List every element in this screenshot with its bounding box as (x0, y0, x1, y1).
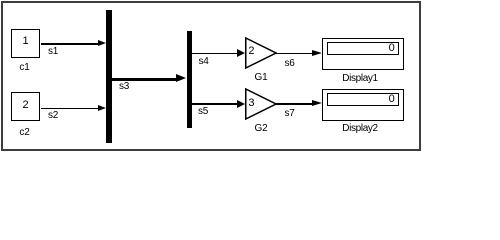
diagram border frame (1, 1, 421, 151)
wire s2 (41, 108, 98, 110)
wire s3 (vector, thick) (112, 78, 176, 81)
display Display2 (322, 89, 405, 121)
label s7 (285, 109, 295, 119)
label Display1 (318, 74, 402, 84)
gain G1 value 2 (248, 46, 254, 57)
demux bar (187, 31, 193, 128)
label s4 (199, 57, 209, 67)
gain G2 (245, 88, 277, 120)
display Display2 value 0 (389, 94, 395, 105)
label G2 (246, 124, 276, 134)
label s3 (119, 82, 129, 92)
wire s7 (276, 103, 312, 105)
arrowhead s2 (98, 105, 106, 111)
label s6 (285, 59, 295, 69)
wire s5 (192, 103, 237, 105)
label G1 (246, 73, 276, 83)
wire s6 (276, 53, 312, 54)
arrowhead s4 (237, 49, 245, 57)
label s2 (48, 111, 58, 121)
label c1 (10, 63, 39, 73)
constant c2 value 2 (11, 100, 41, 111)
label Display2 (318, 124, 402, 134)
arrowhead s7 (312, 100, 322, 106)
label s1 (48, 47, 58, 57)
label s5 (198, 107, 208, 117)
arrowhead s5 (237, 100, 245, 108)
arrowhead s3 (176, 74, 186, 82)
display Display1 readout (327, 42, 400, 55)
arrowhead s1 (98, 40, 106, 46)
display Display1 (322, 38, 405, 70)
wire s1 (41, 43, 98, 45)
constant c1 (11, 29, 40, 58)
label c2 (10, 128, 39, 138)
wire s4 (192, 53, 237, 54)
display Display1 value 0 (389, 43, 395, 54)
constant c1 value 1 (11, 36, 41, 47)
arrowhead s6 (312, 50, 322, 56)
mux bar (106, 10, 113, 143)
gain G1 (245, 37, 277, 69)
display Display2 readout (327, 93, 400, 106)
gain G2 value 3 (248, 98, 254, 109)
constant c2 (11, 92, 40, 121)
